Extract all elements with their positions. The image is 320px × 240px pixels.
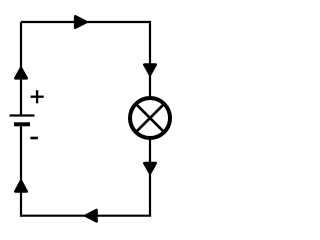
lamp: cross line 2 (136, 104, 164, 132)
current arrow: up, left wire lower (15, 181, 26, 192)
lamp: cross line 1 (136, 104, 164, 132)
battery: plus label (31, 90, 44, 103)
lamp: circle (130, 98, 170, 138)
wire: top side (21, 21, 150, 23)
current arrow: right, top wire (75, 16, 86, 27)
battery: negative plate (short thick line) (14, 122, 30, 126)
current arrow: down, right wire below lamp (144, 163, 155, 173)
wire: right side upper (top-right corner to lamp) (149, 21, 151, 98)
current arrow: left, bottom wire (86, 210, 97, 221)
battery: minus label (30, 137, 38, 140)
wire: bottom side (21, 216, 150, 217)
wire: left side upper (battery positive to top-left corner) (20, 22, 22, 115)
current arrow: up, left wire upper (15, 68, 26, 78)
battery: positive plate (long thin line) (10, 114, 35, 116)
wire: left side lower (bottom-left corner to battery negative) (20, 126, 22, 217)
wire: right side lower (lamp to bottom-right corner) (149, 138, 151, 216)
current arrow: down, right wire above lamp (144, 65, 155, 75)
